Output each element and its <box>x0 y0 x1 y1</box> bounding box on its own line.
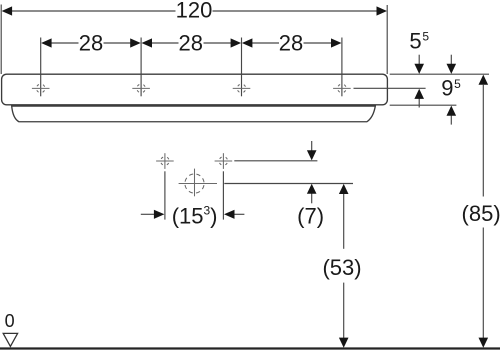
svg-text:5: 5 <box>454 77 461 91</box>
svg-text:(7): (7) <box>297 203 324 228</box>
svg-text:5: 5 <box>409 28 421 53</box>
svg-text:28: 28 <box>279 31 303 56</box>
svg-text:0: 0 <box>5 311 15 331</box>
svg-text:28: 28 <box>179 31 203 56</box>
svg-text:9: 9 <box>441 75 453 100</box>
svg-text:120: 120 <box>176 0 213 23</box>
svg-text:(53): (53) <box>322 255 361 280</box>
svg-text:5: 5 <box>422 30 429 44</box>
svg-text:(153): (153) <box>172 204 218 229</box>
svg-text:28: 28 <box>79 31 103 56</box>
svg-text:(85): (85) <box>462 201 500 226</box>
